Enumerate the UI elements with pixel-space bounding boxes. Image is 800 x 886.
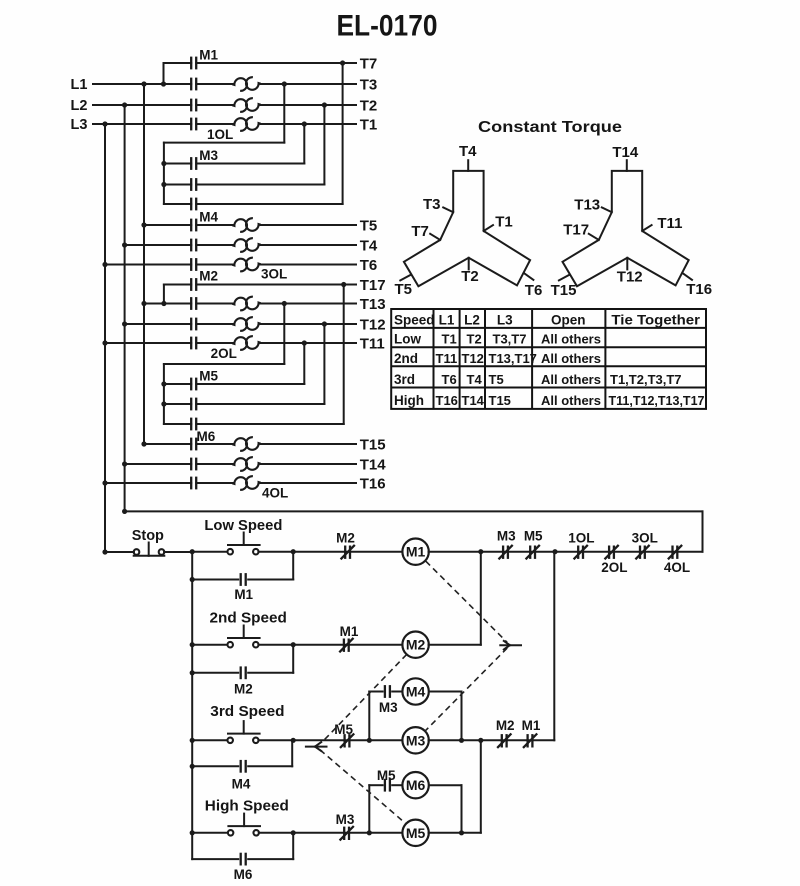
svg-text:High: High: [394, 393, 424, 408]
svg-text:4OL: 4OL: [664, 560, 690, 575]
wire M4-T5 row: [144, 224, 191, 226]
terminal tick T11: [642, 225, 651, 231]
wire rung4: [192, 832, 228, 834]
wire rung4 right section: [429, 832, 481, 834]
svg-text:T12: T12: [360, 316, 386, 333]
junction on L3-T1 row x=304.3: [302, 121, 307, 126]
junction on M6-T15 row x=144: [141, 441, 146, 446]
wire T17 drop to M5-c: [343, 285, 345, 425]
wire vertical from L1 up to M1/T7 row: [163, 63, 165, 84]
contact M4-T5: [190, 219, 192, 232]
svg-text:M2: M2: [496, 718, 515, 733]
contact M4-T4: [190, 239, 192, 252]
table row lines: [391, 327, 706, 329]
coil M4: [402, 678, 428, 704]
svg-text:1OL: 1OL: [207, 127, 233, 142]
wire L1 bus x=144: [143, 84, 145, 444]
svg-text:L1: L1: [439, 312, 455, 327]
junction on L1-T3 row x=284.3: [282, 81, 287, 86]
svg-text:L3: L3: [71, 117, 88, 133]
junction rung3 M4 branch right: [459, 738, 464, 743]
svg-text:M4: M4: [406, 684, 426, 700]
svg-text:T2: T2: [461, 268, 479, 285]
junction on M2-T11 row x=304.3: [302, 340, 307, 345]
svg-text:T11,T12,T13,T17: T11,T12,T13,T17: [609, 393, 705, 408]
svg-text:T3: T3: [423, 196, 441, 213]
contact M6-T16: [190, 477, 192, 490]
svg-text:T6: T6: [442, 372, 457, 387]
svg-text:Stop: Stop: [132, 528, 164, 544]
wire M5 left bus: [163, 364, 165, 424]
junction on L1-T3 row x=144: [141, 81, 146, 86]
svg-text:T4: T4: [360, 237, 378, 254]
contact M3 (NC) on rung4: [343, 827, 345, 840]
svg-text:T13: T13: [360, 296, 386, 313]
junction bus M4 seal: [190, 764, 195, 769]
svg-text:T13: T13: [574, 197, 600, 214]
junction on M4-T5 row x=144: [141, 222, 146, 227]
junction on M2-T13 row x=144: [141, 301, 146, 306]
junction rung3 x=480.8: [478, 738, 483, 743]
terminal tick T14: [626, 160, 628, 171]
wire M1-T7 row: [164, 62, 192, 64]
junction on M1-T7 row x=342.6: [340, 60, 345, 65]
junction rung3 M4 branch left: [367, 738, 372, 743]
overload heater on M2-T12 row: [232, 318, 247, 331]
svg-text:T6: T6: [525, 282, 543, 299]
svg-text:Open: Open: [551, 312, 586, 327]
wire rung1 right section: [429, 551, 703, 553]
junction on M6-T16 row x=105: [102, 480, 107, 485]
wire M2-T11 row: [105, 342, 191, 344]
svg-text:M2: M2: [199, 269, 218, 284]
overload heater on L2-T2 row: [232, 99, 247, 112]
coil M3: [402, 727, 428, 753]
winding outline (T4 group): [404, 171, 530, 286]
svg-text:M3: M3: [497, 529, 516, 544]
svg-text:M5: M5: [334, 722, 353, 737]
svg-text:T11: T11: [436, 351, 458, 366]
wire M5-a row: [164, 383, 191, 385]
terminal tick T16: [682, 273, 692, 280]
table connection chart frame: [391, 309, 706, 409]
contact M5-b: [190, 398, 192, 411]
contact M2-T12: [190, 318, 192, 331]
terminal tick T6: [524, 273, 534, 280]
dashed interlock M2 to M5: [323, 654, 407, 741]
wire M6 coil branch: [368, 785, 370, 833]
wire T11 drop to M5-a: [303, 343, 305, 384]
svg-text:T7: T7: [411, 223, 429, 240]
svg-text:M1: M1: [234, 587, 253, 602]
wire rail right drop: [702, 511, 704, 551]
pushbutton Low Speed (NO): [227, 549, 233, 555]
svg-text:M4: M4: [199, 210, 218, 225]
terminal tick T1: [484, 225, 493, 231]
contact M3-c: [190, 198, 192, 211]
svg-text:T12: T12: [462, 351, 484, 366]
coil M1: [402, 539, 428, 565]
junction on M5-b row x=163.9: [161, 401, 166, 406]
contact M5-a: [190, 378, 192, 391]
junction on L2-T2 row x=124.6: [122, 102, 127, 107]
overload heater on L1-T3 row: [232, 78, 247, 91]
contact M1 (NC) on rung3: [526, 734, 528, 747]
wire M4 coil branch: [368, 692, 370, 741]
wire low-speed leads: [192, 551, 227, 553]
contact M3-a: [190, 157, 192, 170]
contact M3 (NO) on M4 branch: [384, 685, 386, 698]
svg-text:M5: M5: [524, 529, 543, 544]
junction bus rung4: [190, 830, 195, 835]
svg-text:3rd Speed: 3rd Speed: [210, 704, 284, 720]
contact L2-T2: [190, 99, 192, 112]
junction on L1-T3 row x=163.5: [161, 81, 166, 86]
overload heater on M4-T5 row: [232, 219, 247, 232]
wire L3 bus x=105: [104, 124, 106, 552]
svg-text:T5: T5: [395, 281, 413, 298]
terminal tick T7: [430, 234, 440, 240]
junction bus rung3: [190, 738, 195, 743]
svg-text:3rd: 3rd: [394, 372, 415, 387]
svg-text:M3: M3: [379, 700, 398, 715]
contact M6 seal (NO): [240, 853, 242, 866]
wire L2-T2 row: [93, 104, 191, 106]
svg-text:M6: M6: [234, 867, 253, 882]
svg-text:Tie Together: Tie Together: [611, 312, 700, 327]
svg-text:T16: T16: [436, 393, 458, 408]
overload heater on M6-T16 row: [232, 477, 247, 490]
svg-text:2nd: 2nd: [394, 351, 418, 366]
svg-text:T1: T1: [442, 332, 457, 347]
contact 1OL (NC): [577, 546, 579, 559]
contact 4OL (NC): [671, 546, 673, 559]
svg-text:T5: T5: [489, 372, 504, 387]
svg-text:T17: T17: [563, 222, 589, 239]
svg-text:T7: T7: [360, 55, 378, 72]
wire M3 feed jog: [164, 142, 284, 144]
svg-text:All others: All others: [541, 393, 601, 408]
svg-text:L2: L2: [71, 98, 88, 114]
wire interconnect rung3 to rung4: [480, 740, 482, 833]
wire T12 drop to M5-b: [323, 324, 325, 404]
wire T13 drop to M5 feed: [283, 304, 285, 365]
svg-text:T6: T6: [360, 257, 378, 274]
terminal tick T4: [467, 160, 469, 171]
svg-text:M5: M5: [377, 768, 396, 783]
wire M5 feed jog: [164, 363, 284, 365]
contact M2-T17: [190, 278, 192, 291]
contact M1 seal (NO): [240, 573, 242, 586]
svg-text:All others: All others: [541, 372, 601, 387]
wire M6-T14 row: [125, 463, 192, 465]
overload heater on M6-T14 row: [232, 458, 247, 471]
svg-text:T3,T7: T3,T7: [493, 332, 527, 347]
svg-text:1OL: 1OL: [568, 530, 594, 545]
wire T17 drop to T13 row: [163, 285, 165, 304]
junction rung1 x=555: [552, 549, 557, 554]
contact L3-T1: [190, 118, 192, 131]
svg-text:3OL: 3OL: [632, 530, 658, 545]
svg-text:M6: M6: [406, 777, 426, 793]
terminal tick T13: [602, 207, 612, 212]
contact M2-T13: [190, 297, 192, 310]
junction on M4-T4 row x=124.6: [122, 242, 127, 247]
contact M6-T15: [190, 438, 192, 451]
wire M4-T4 row: [125, 244, 192, 246]
svg-text:2OL: 2OL: [211, 346, 237, 361]
wire control top rail: [125, 510, 703, 512]
svg-text:M2: M2: [234, 682, 253, 697]
svg-text:T14: T14: [462, 393, 485, 408]
svg-text:T13,T17: T13,T17: [489, 351, 537, 366]
wire M6-T16 row: [105, 482, 191, 484]
wire M5-c row: [164, 423, 191, 425]
terminal tick T12: [626, 258, 628, 270]
wire stop to bus: [164, 551, 192, 553]
svg-text:Low Speed: Low Speed: [204, 518, 282, 534]
svg-text:T1: T1: [495, 214, 513, 231]
contact M5-c: [190, 418, 192, 431]
junction bus M2 seal: [190, 670, 195, 675]
wire M4 seal branch: [192, 765, 238, 767]
junction rung4 M6 branch right: [459, 830, 464, 835]
interlock arrow right: [500, 644, 521, 646]
contact L1-T3: [190, 78, 192, 91]
svg-text:T11: T11: [360, 335, 385, 352]
wire control left bus: [191, 552, 193, 859]
svg-text:All others: All others: [541, 332, 601, 347]
svg-text:T4: T4: [467, 372, 483, 387]
contact M2 seal (NO): [240, 666, 242, 679]
wire rung2: [192, 644, 227, 646]
contact M6-T14: [190, 458, 192, 471]
svg-text:M3: M3: [336, 812, 355, 827]
junction rung4 M6 branch left: [367, 830, 372, 835]
wire M2-T12 row: [125, 323, 192, 325]
overload heater on M4-T4 row: [232, 239, 247, 252]
junction on M3-b row x=163.9: [161, 182, 166, 187]
terminal tick T15: [559, 275, 569, 281]
junction on M5-a row x=163.9: [161, 381, 166, 386]
junction on L3-T1 row x=105: [102, 121, 107, 126]
contact M4 seal (NO): [240, 760, 242, 773]
svg-text:T4: T4: [459, 143, 477, 160]
wire T2 drop to M3-b: [323, 105, 325, 185]
coil M2: [402, 632, 428, 658]
junction bus rung2: [190, 642, 195, 647]
contact M1-T7: [190, 57, 192, 70]
svg-text:M2: M2: [336, 530, 355, 545]
junction rail / L2 bus: [122, 509, 127, 514]
svg-text:M5: M5: [406, 825, 426, 841]
wire T7 drop to M3-c: [342, 63, 344, 204]
svg-text:T5: T5: [360, 217, 378, 234]
contact 3OL (NC): [639, 546, 641, 559]
contact M1 (NC) on rung2: [343, 639, 345, 652]
svg-text:4OL: 4OL: [262, 486, 288, 501]
svg-text:M3: M3: [199, 148, 218, 163]
junction bus M1 seal: [190, 577, 195, 582]
wire M2 seal branch: [192, 672, 238, 674]
svg-text:T14: T14: [612, 144, 639, 161]
junction on L2-T2 row x=324.4: [322, 102, 327, 107]
wire M5-b row: [164, 403, 191, 405]
contact M5 (NC) on rung1: [529, 546, 531, 559]
contact 2OL (NC): [608, 546, 610, 559]
junction rung1 seal join: [291, 549, 296, 554]
svg-text:T15: T15: [489, 393, 511, 408]
wire M2-T17 row: [164, 284, 191, 286]
wire T1 drop to M3-a: [303, 124, 305, 164]
contact M2-T11: [190, 337, 192, 350]
svg-text:T11: T11: [657, 215, 682, 232]
contact M3 (NC) on rung1: [502, 546, 504, 559]
junction rung2 seal join: [291, 642, 296, 647]
coil M6: [402, 772, 428, 798]
svg-text:Constant Torque: Constant Torque: [478, 119, 622, 136]
junction on M2-T12 row x=124.6: [122, 321, 127, 326]
svg-text:L3: L3: [497, 312, 513, 327]
svg-text:L2: L2: [464, 312, 480, 327]
junction on M6-T14 row x=124.6: [122, 461, 127, 466]
junction on M2-T11 row x=105: [102, 340, 107, 345]
svg-text:Speed: Speed: [394, 312, 435, 327]
contact M5 (NO) on M6 branch: [384, 779, 386, 792]
svg-text:3OL: 3OL: [261, 267, 287, 282]
junction rung4 seal join: [291, 830, 296, 835]
junction on M2-T13 row x=163.9: [161, 301, 166, 306]
svg-text:All others: All others: [541, 351, 601, 366]
winding outline (T14 group): [563, 171, 689, 286]
junction on M2-T13 row x=284.3: [282, 301, 287, 306]
contact M2 (NC) on rung3: [501, 734, 503, 747]
svg-text:High Speed: High Speed: [205, 798, 289, 814]
terminal tick T5: [400, 275, 410, 281]
svg-text:M5: M5: [199, 369, 218, 384]
wire M2-T13 row: [144, 303, 191, 305]
dashed interlock M1 to M3: [426, 561, 507, 642]
wire M6-T15 row: [144, 443, 191, 445]
svg-text:M3: M3: [406, 732, 426, 748]
junction L3 bus / stop row: [102, 549, 107, 554]
junction bus rung1: [190, 549, 195, 554]
svg-text:M1: M1: [340, 624, 359, 639]
junction rung3 seal join: [291, 738, 296, 743]
svg-text:T17: T17: [360, 277, 386, 294]
svg-text:M4: M4: [232, 777, 251, 792]
junction on M3-a row x=163.9: [161, 161, 166, 166]
svg-text:Low: Low: [394, 332, 421, 347]
svg-text:T15: T15: [551, 282, 577, 299]
junction on M4-T6 row x=105: [102, 262, 107, 267]
junction on M2-T17 row x=343.7: [341, 282, 346, 287]
junction on M2-T12 row x=324.4: [322, 321, 327, 326]
terminal tick T3: [443, 207, 453, 212]
wire M4-T6 row: [105, 264, 191, 266]
svg-text:M1: M1: [199, 48, 218, 63]
contact M3-b: [190, 178, 192, 191]
svg-text:T2: T2: [467, 332, 482, 347]
overload heater on M2-T11 row: [232, 337, 247, 350]
pushbutton High Speed (NO): [228, 830, 234, 836]
overload heater on M4-T6 row: [232, 259, 247, 272]
svg-text:EL-0170: EL-0170: [337, 10, 438, 43]
wire stop lead: [105, 551, 134, 553]
wire M3-a row: [164, 163, 191, 165]
overload heater on M2-T13 row: [232, 298, 247, 311]
svg-text:T1,T2,T3,T7: T1,T2,T3,T7: [610, 372, 682, 387]
overload heater on M6-T15 row: [232, 438, 247, 451]
wire M3 left bus: [163, 143, 165, 204]
svg-text:T15: T15: [360, 436, 386, 453]
wire M1 seal branch: [192, 579, 238, 581]
coil M5: [402, 820, 428, 846]
svg-text:T12: T12: [617, 269, 643, 286]
wire rung2 to interconnect: [429, 644, 481, 646]
svg-text:T14: T14: [360, 456, 387, 473]
junction rung1 x=480.8: [478, 549, 483, 554]
svg-text:M2: M2: [406, 637, 426, 653]
contact M2 (NC) on rung1: [344, 546, 346, 559]
terminal tick T2: [468, 258, 470, 270]
wire M3-c row: [164, 203, 191, 205]
contact M4-T6: [190, 258, 192, 271]
interlock arrow left: [306, 746, 327, 748]
svg-text:T16: T16: [360, 475, 386, 492]
svg-text:T2: T2: [360, 97, 378, 114]
svg-text:T3: T3: [360, 76, 378, 93]
wire L2 bus x=124.6: [124, 105, 126, 511]
svg-text:2OL: 2OL: [601, 560, 627, 575]
pushbutton 2nd Speed (NO): [227, 642, 233, 648]
wire L1-T3 row: [93, 83, 191, 85]
contact M5 (NC) on rung3: [343, 734, 345, 747]
pushbutton 3rd Speed (NO): [227, 738, 233, 744]
wire M3-b row: [164, 184, 191, 186]
svg-text:L1: L1: [71, 77, 88, 93]
svg-text:M1: M1: [522, 718, 541, 733]
wire T3 drop to M3 feed: [283, 84, 285, 143]
overload heater on L3-T1 row: [232, 118, 247, 131]
wire L3-T1 row: [93, 123, 191, 125]
table column lines: [433, 309, 435, 409]
wire rung3 right section: [429, 739, 555, 741]
pushbutton Stop (NC): [134, 549, 140, 555]
svg-text:M6: M6: [197, 429, 216, 444]
wire M6 seal branch: [192, 858, 238, 860]
wire rung3: [192, 739, 227, 741]
terminal tick T17: [589, 234, 599, 240]
svg-text:2nd Speed: 2nd Speed: [210, 611, 287, 627]
svg-text:M1: M1: [406, 544, 426, 560]
svg-text:T1: T1: [360, 116, 378, 133]
svg-text:T16: T16: [686, 281, 712, 298]
